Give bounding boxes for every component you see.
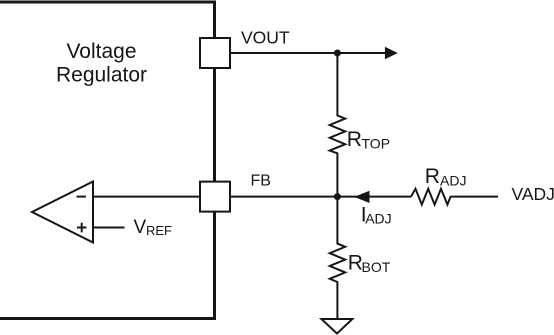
wire VOUT (230, 52, 386, 54)
wire node to RADJ (337, 196, 411, 198)
svg-text:V: V (134, 217, 147, 238)
op-amp U2 (32, 182, 93, 243)
svg-text:FB: FB (251, 173, 271, 190)
svg-text:VADJ: VADJ (512, 184, 554, 204)
voltage regulator box U1 (0, 2, 215, 319)
svg-text:VOUT: VOUT (241, 28, 290, 48)
pin VOUT square (200, 38, 230, 68)
svg-text:Regulator: Regulator (56, 64, 147, 87)
arrowhead IADJ pointing left (354, 191, 369, 203)
wire opamp plus input (93, 227, 125, 229)
label RBOT (348, 252, 391, 276)
svg-text:BOT: BOT (362, 259, 391, 275)
arrowhead VOUT output (385, 47, 398, 60)
ground symbol (321, 319, 352, 334)
label RADJ (425, 165, 467, 189)
label VREF (134, 217, 173, 238)
junction node at FB (334, 193, 341, 200)
junction node at VOUT/RTOP (334, 50, 341, 57)
wire opamp minus input to FB pin (93, 196, 200, 198)
label IADJ (361, 204, 392, 227)
wire FB pin to node (231, 196, 337, 198)
resistor RTOP (330, 53, 346, 197)
svg-text:ADJ: ADJ (440, 172, 466, 188)
resistor RBOT (330, 197, 346, 319)
svg-text:ADJ: ADJ (365, 211, 391, 227)
svg-text:R: R (425, 165, 440, 188)
svg-text:TOP: TOP (362, 136, 391, 152)
label RTOP (347, 128, 390, 152)
svg-text:R: R (347, 128, 362, 151)
resistor RADJ (411, 189, 498, 205)
svg-text:Voltage: Voltage (66, 40, 136, 63)
pin FB square (200, 182, 230, 212)
svg-text:REF: REF (146, 223, 172, 238)
